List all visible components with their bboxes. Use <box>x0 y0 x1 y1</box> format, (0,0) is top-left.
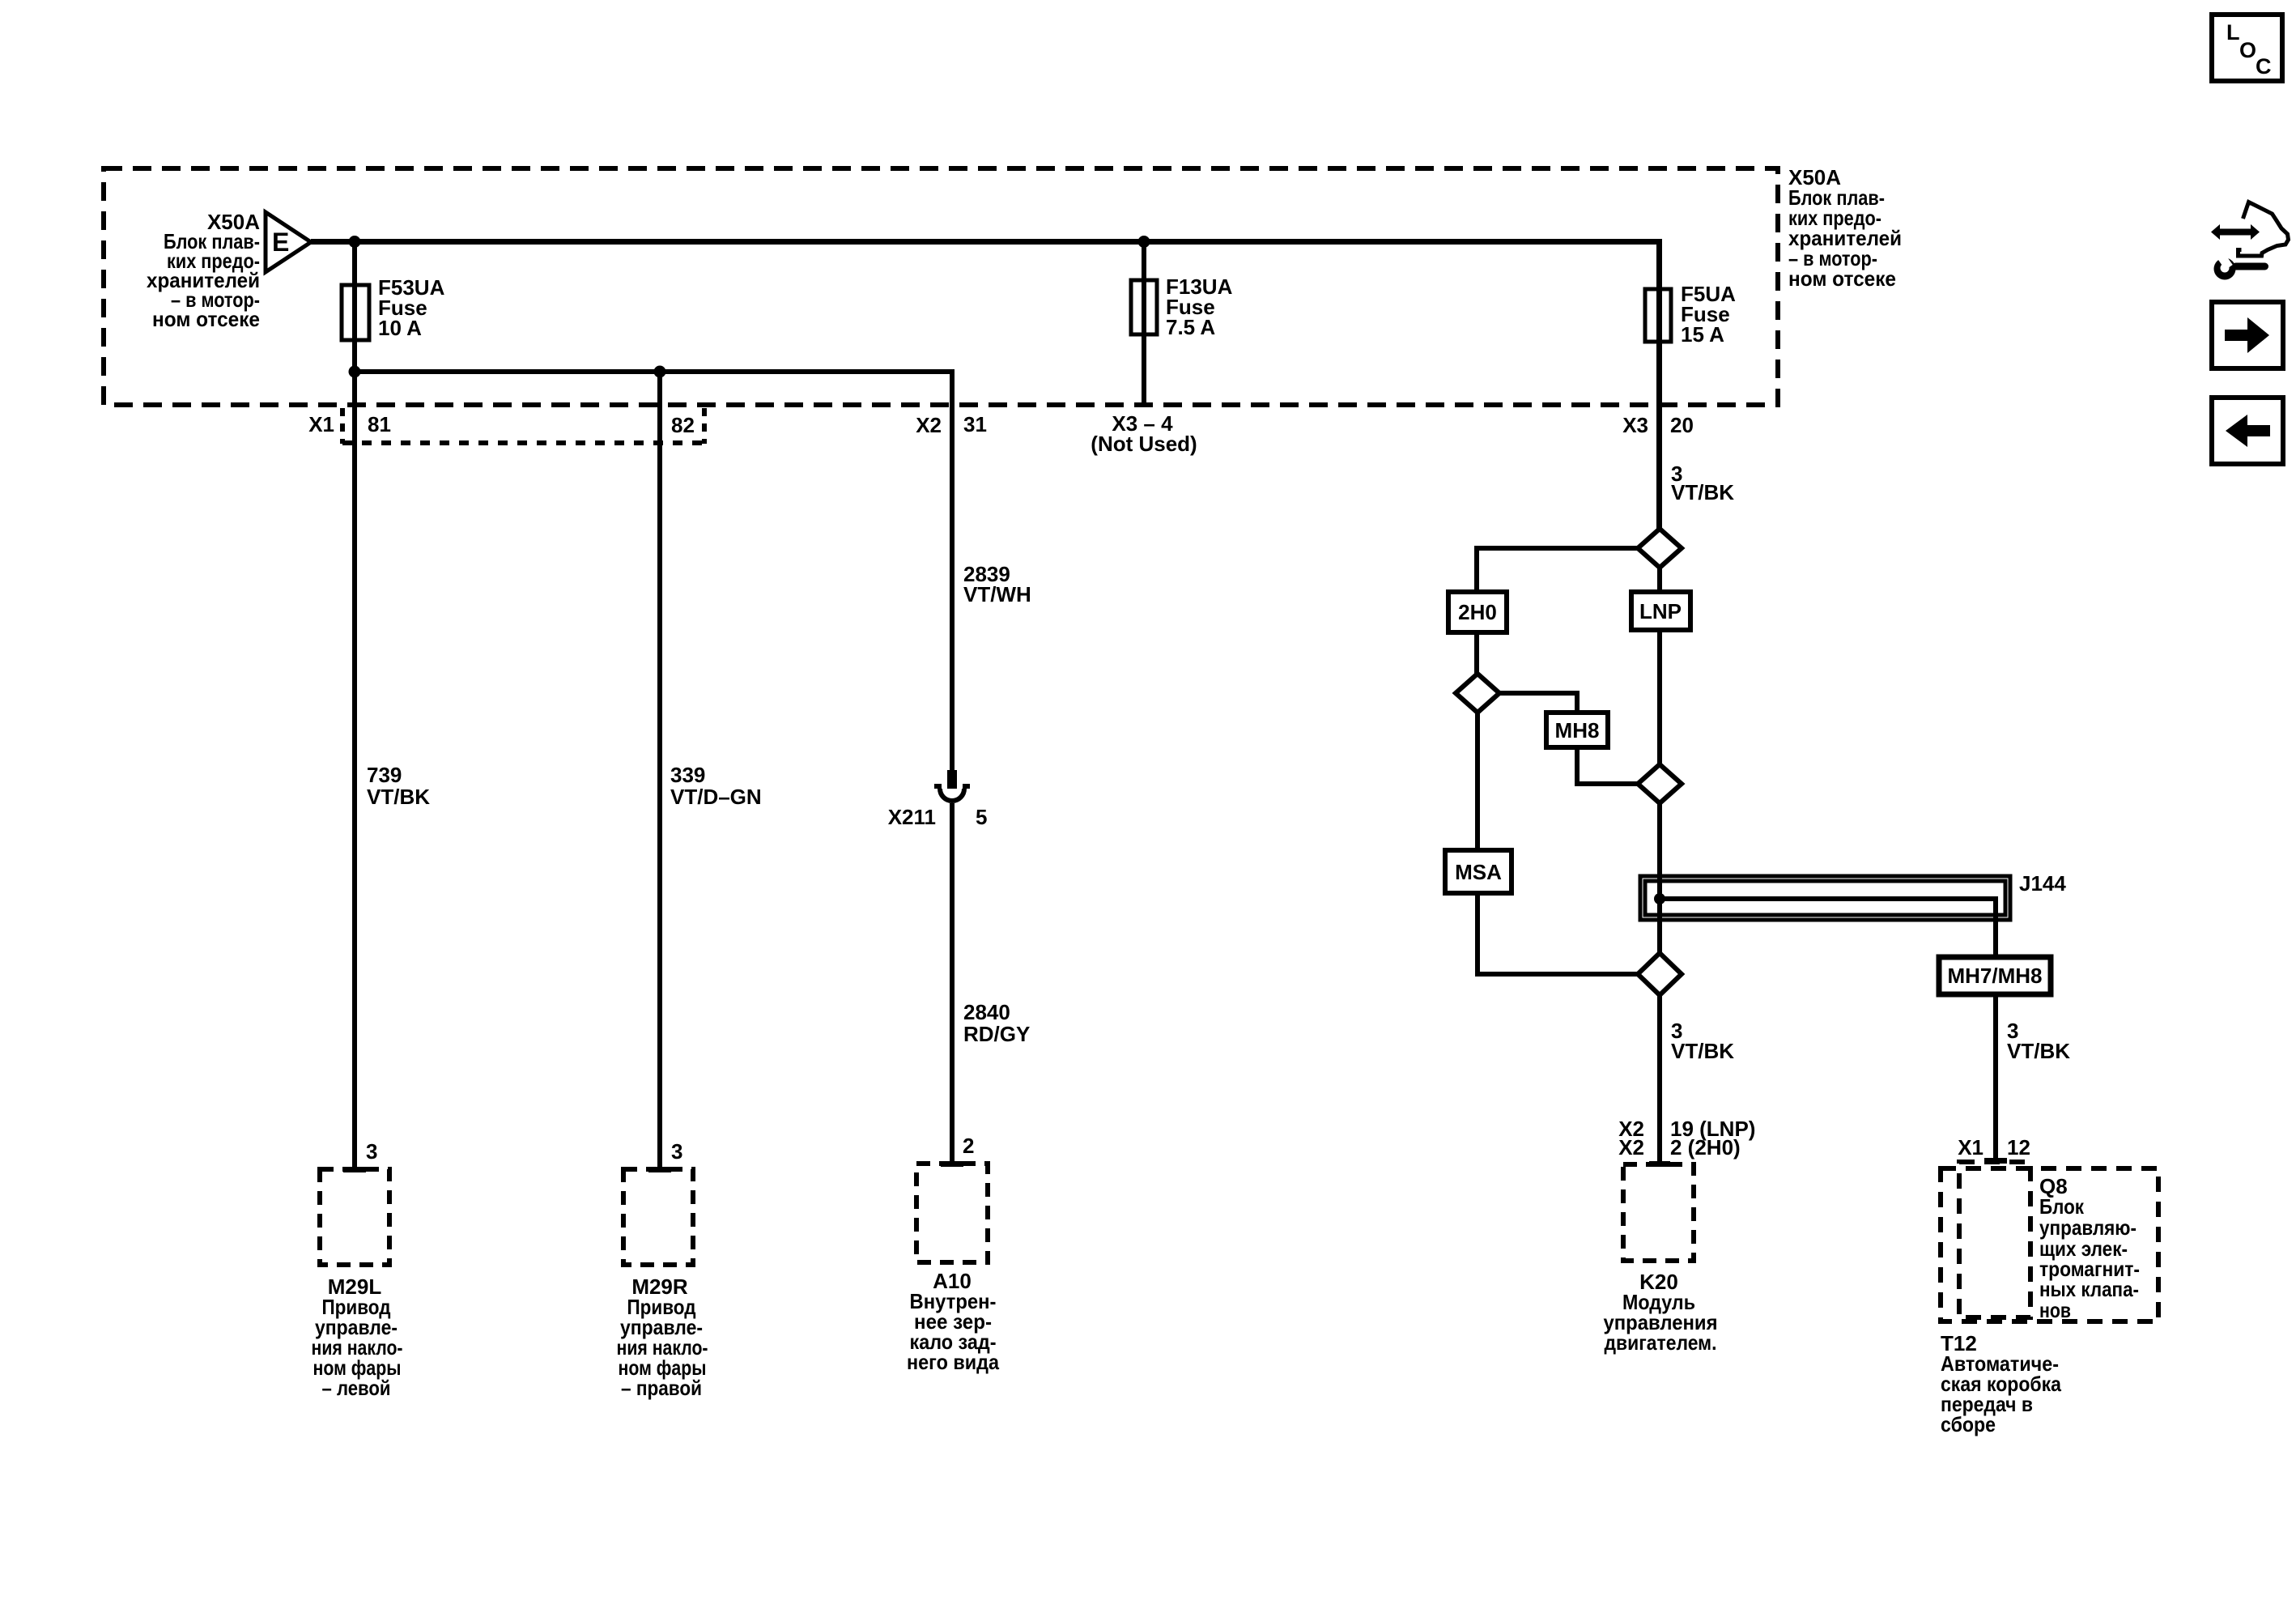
fuse block label left <box>147 210 260 331</box>
svg-text:X2: X2 <box>916 413 942 437</box>
wire label 3 VT/BK (X3 col) <box>1671 462 1734 504</box>
car service icon <box>2211 202 2289 280</box>
svg-text:82: 82 <box>671 413 695 437</box>
svg-text:5: 5 <box>976 805 987 829</box>
fuse block label right <box>1788 165 1902 291</box>
svg-text:2: 2 <box>963 1134 974 1158</box>
wire label 3 VT/BK (K20) <box>1671 1019 1734 1063</box>
svg-text:VT/BK: VT/BK <box>1671 1039 1734 1063</box>
wire label 339 VT/D-GN <box>670 763 762 809</box>
splice box 2H0 <box>1448 592 1507 632</box>
connector strip X1 <box>342 408 707 444</box>
terminal bar M29L <box>343 1167 366 1172</box>
wire LNP to diamond3 <box>1657 630 1662 764</box>
svg-text:3: 3 <box>366 1139 377 1164</box>
wire label 3 VT/BK (Q8) <box>2007 1019 2070 1063</box>
splice box LNP <box>1657 568 1662 592</box>
LOC box <box>2212 15 2282 81</box>
junction dot <box>1138 236 1150 248</box>
wire diamond4 to K20 <box>1657 995 1662 1164</box>
connector J144 inner <box>1645 881 2005 915</box>
pin rows above K20 <box>1618 1117 1755 1160</box>
svg-text:X2: X2 <box>1618 1135 1644 1160</box>
component box K20 <box>1623 1164 1694 1261</box>
wire diamond1 to 2H0 <box>1477 548 1638 592</box>
svg-text:VT/BK: VT/BK <box>367 785 430 809</box>
svg-text:2H0: 2H0 <box>1458 600 1497 624</box>
svg-text:ном отсеке: ном отсеке <box>1788 266 1896 291</box>
svg-text:3: 3 <box>671 1139 682 1164</box>
terminal bar M29R <box>648 1167 671 1172</box>
label Q8 <box>2039 1174 2140 1322</box>
component box M29L <box>320 1169 389 1265</box>
svg-text:X3: X3 <box>1622 413 1648 437</box>
wire J144 branch to MH7/MH8 <box>1660 899 1996 957</box>
svg-text:10 A: 10 A <box>378 316 422 340</box>
svg-text:7.5 A: 7.5 A <box>1166 315 1215 339</box>
svg-text:RD/GY: RD/GY <box>963 1022 1030 1046</box>
junction dot <box>349 366 361 378</box>
svg-text:X1: X1 <box>1958 1135 1983 1160</box>
terminal bar A10 <box>941 1161 963 1167</box>
svg-text:нов: нов <box>2039 1298 2071 1322</box>
splice box MSA <box>1445 850 1512 893</box>
main bus wire <box>311 242 1660 530</box>
svg-text:двигателем.: двигателем. <box>1605 1330 1717 1355</box>
svg-text:15 A: 15 A <box>1681 322 1724 347</box>
svg-text:L: L <box>2226 20 2240 45</box>
power source triangle E <box>266 212 311 272</box>
junction dot <box>654 366 666 378</box>
component box M29R <box>623 1169 693 1265</box>
svg-text:VT/BK: VT/BK <box>2007 1039 2070 1063</box>
terminal bar K20 <box>1649 1161 1670 1167</box>
wire 339 branch <box>657 372 662 1169</box>
svg-text:X211: X211 <box>888 805 936 829</box>
fuse block X50A dashed box <box>104 168 1778 405</box>
svg-text:VT/D–GN: VT/D–GN <box>670 785 762 809</box>
inline connector X211 <box>934 770 970 801</box>
component box T12 <box>1941 1168 2158 1321</box>
component box Q8 <box>1959 1162 2030 1317</box>
wire 2H0 to diamond2 <box>1474 632 1479 674</box>
svg-text:12: 12 <box>2007 1135 2030 1160</box>
forward arrow box <box>2212 302 2283 368</box>
wire MH7/MH8 to Q8 <box>1993 994 1998 1160</box>
svg-text:2 (2H0): 2 (2H0) <box>1670 1135 1741 1160</box>
wire MSA to diamond4 <box>1478 893 1638 974</box>
junction dot <box>349 236 361 248</box>
svg-text:него вида: него вида <box>907 1350 999 1374</box>
svg-text:MSA: MSA <box>1455 860 1502 884</box>
diamond connector 2 <box>1456 674 1499 713</box>
svg-text:81: 81 <box>368 412 391 436</box>
svg-text:LNP: LNP <box>1639 599 1682 623</box>
component box A10 <box>916 1164 988 1262</box>
svg-text:– левой: – левой <box>322 1376 391 1400</box>
svg-text:E: E <box>272 228 289 257</box>
diamond connector 1 <box>1638 529 1682 568</box>
svg-text:20: 20 <box>1670 413 1694 437</box>
svg-text:J144: J144 <box>2019 871 2066 896</box>
svg-text:31: 31 <box>963 412 987 436</box>
splice box MH7/MH8 <box>1939 957 2051 994</box>
wire second bus <box>355 372 952 770</box>
wire label 2840 RD/GY <box>963 1000 1030 1046</box>
fuse F53UA <box>342 285 369 340</box>
wire MH8 to diamond3 <box>1577 747 1638 784</box>
svg-text:MH7/MH8: MH7/MH8 <box>1947 964 2042 988</box>
svg-text:– правой: – правой <box>621 1376 702 1400</box>
junction dot in J144 <box>1654 893 1665 904</box>
connector J144 outer <box>1640 876 2010 920</box>
label T12 <box>1941 1331 2061 1436</box>
svg-text:2840: 2840 <box>963 1000 1010 1024</box>
svg-text:X1: X1 <box>308 412 334 436</box>
pin row above Q8 <box>1958 1135 2030 1160</box>
wire diamond2 to MH8 <box>1499 693 1577 713</box>
wire label 2839 VT/WH <box>963 562 1031 606</box>
wire diamond3 to diamond4 <box>1657 803 1662 953</box>
terminal bar Q8 <box>1984 1158 2007 1164</box>
svg-text:VT/BK: VT/BK <box>1671 480 1734 504</box>
svg-text:339: 339 <box>670 763 705 787</box>
wire diamond2 to MSA <box>1475 713 1480 850</box>
splice box MH8 <box>1546 713 1608 747</box>
wire F53UA branch <box>352 242 357 1170</box>
diamond connector 4 <box>1638 953 1682 995</box>
fuse F5UA <box>1645 289 1671 342</box>
svg-text:сборе: сборе <box>1941 1412 1996 1436</box>
svg-text:739: 739 <box>367 763 402 787</box>
wire 2840 <box>950 803 955 1164</box>
svg-text:O: O <box>2239 38 2256 62</box>
fuse F13UA <box>1131 280 1157 334</box>
svg-text:(Not Used): (Not Used) <box>1091 432 1197 456</box>
svg-text:VT/WH: VT/WH <box>963 582 1031 606</box>
back arrow box <box>2212 398 2283 464</box>
svg-text:MH8: MH8 <box>1555 718 1600 743</box>
svg-text:ном отсеке: ном отсеке <box>152 307 260 331</box>
diamond connector 3 <box>1638 764 1682 803</box>
wire F13UA branch <box>1142 242 1146 406</box>
svg-text:C: C <box>2256 54 2272 79</box>
wire label 739 VT/BK <box>367 763 430 809</box>
